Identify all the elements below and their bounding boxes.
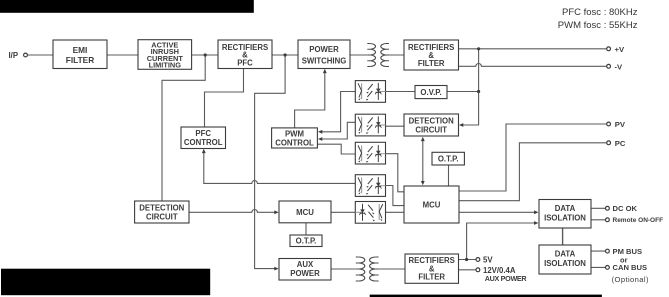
svg-text:PFC: PFC: [195, 129, 211, 138]
svg-text:PFC: PFC: [237, 58, 253, 67]
svg-text:AUX: AUX: [297, 260, 314, 269]
svg-text:POWER: POWER: [290, 269, 320, 278]
svg-text:CAN BUS: CAN BUS: [613, 263, 648, 272]
svg-text:MCU: MCU: [296, 208, 314, 217]
svg-text:5V: 5V: [483, 256, 493, 265]
svg-text:MCU: MCU: [423, 200, 441, 209]
svg-text:-V: -V: [615, 62, 624, 71]
svg-text:Remote ON-OFF: Remote ON-OFF: [613, 217, 664, 224]
svg-text:POWER: POWER: [309, 45, 339, 54]
svg-text:O.V.P.: O.V.P.: [420, 88, 441, 97]
svg-text:PC: PC: [615, 139, 626, 148]
svg-text:DC OK: DC OK: [613, 204, 638, 213]
svg-text:ISOLATION: ISOLATION: [544, 214, 586, 223]
svg-text:SWITCHING: SWITCHING: [302, 56, 347, 65]
svg-text:CIRCUIT: CIRCUIT: [415, 126, 447, 135]
svg-text:O.T.P.: O.T.P.: [438, 154, 459, 163]
svg-text:EMI: EMI: [73, 45, 88, 55]
svg-text:FILTER: FILTER: [66, 55, 94, 65]
svg-text:CONTROL: CONTROL: [275, 138, 314, 147]
svg-text:ISOLATION: ISOLATION: [544, 259, 586, 268]
svg-text:DETECTION: DETECTION: [409, 117, 454, 126]
svg-text:AUX POWER: AUX POWER: [485, 274, 528, 283]
svg-text:PWM fosc : 55KHz: PWM fosc : 55KHz: [558, 20, 638, 31]
svg-text:FILTER: FILTER: [418, 273, 445, 282]
svg-text:PV: PV: [615, 120, 626, 129]
svg-text:DETECTION: DETECTION: [139, 203, 184, 212]
svg-text:I/P: I/P: [9, 51, 19, 60]
svg-text:CIRCUIT: CIRCUIT: [146, 212, 178, 221]
svg-text:(Optional): (Optional): [612, 275, 649, 284]
svg-text:PWM: PWM: [285, 129, 304, 138]
svg-text:+V: +V: [615, 45, 625, 54]
svg-text:CONTROL: CONTROL: [184, 138, 223, 147]
svg-text:FILTER: FILTER: [418, 59, 445, 68]
svg-text:LIMITING: LIMITING: [149, 61, 182, 70]
svg-text:PFC fosc : 80KHz: PFC fosc : 80KHz: [562, 7, 638, 18]
svg-text:DATA: DATA: [555, 250, 576, 259]
svg-text:O.T.P.: O.T.P.: [296, 237, 317, 246]
svg-text:DATA: DATA: [555, 204, 576, 213]
